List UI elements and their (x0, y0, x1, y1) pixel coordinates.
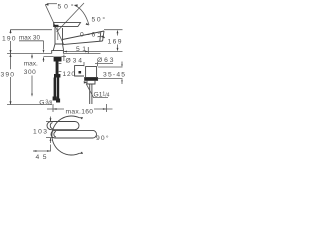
spout top view pill (51, 130, 97, 138)
169 vertical dimension line (117, 33, 119, 48)
svg-text:120: 120 (63, 71, 76, 78)
base flange (52, 51, 64, 54)
svg-text:max 30: max 30 (19, 35, 40, 42)
arrow 190 bottom (10, 50, 12, 54)
hose junction blob (54, 74, 60, 78)
svg-text:Ø63: Ø63 (97, 57, 114, 64)
hose right bar (57, 78, 59, 100)
svg-text:300: 300 (24, 69, 36, 76)
arrow 190 top (10, 29, 12, 33)
169 top extension (104, 29, 123, 31)
max300 dimension line (31, 55, 33, 94)
arrow max160 right (103, 108, 106, 110)
svg-text:G3/8: G3/8 (39, 99, 52, 106)
max160 left tick (52, 104, 54, 112)
35-45 extension lines (97, 67, 123, 79)
51 extension tick (87, 47, 89, 54)
waste upper cylinder (86, 67, 97, 78)
arrow 0-6 leader (102, 35, 105, 38)
arrow max300 down (31, 93, 33, 96)
arrow 390 bottom (10, 101, 12, 105)
mounting nut (54, 57, 62, 62)
left vertical dimension line 190/390 (10, 30, 12, 105)
arrow max30 down (43, 50, 45, 53)
deck line left segment (7, 53, 52, 55)
103 top tick (46, 121, 55, 123)
arrow 50deg leader (45, 3, 49, 5)
spout bottom edge (63, 41, 103, 45)
arrow 103 bottom (50, 138, 52, 141)
base cone (53, 44, 63, 51)
45 dimension line (33, 150, 50, 152)
arrow 169 top (117, 30, 119, 34)
waste flange band fill (85, 78, 98, 80)
hose left bar (54, 78, 56, 98)
Ø63 extension ticks (84, 62, 98, 66)
svg-text:max.: max. (24, 61, 38, 68)
arrow 51 right (85, 51, 88, 53)
svg-text:max.160: max.160 (66, 108, 94, 115)
waste branch inner mark (79, 71, 82, 74)
Ø63 leader underline (95, 63, 113, 65)
arrow max160 left (53, 108, 56, 110)
103 lower segment and 45 extension (50, 138, 52, 152)
waste lower cylinder (87, 80, 95, 84)
swivel arc 90deg (52, 116, 80, 155)
svg-text:50°: 50° (58, 3, 74, 11)
arrow 45 left (33, 150, 36, 152)
svg-text:Ø34: Ø34 (66, 57, 83, 64)
lever top view pill (47, 122, 79, 130)
max30 lower arrow tail (43, 58, 45, 63)
lever underside shadow (54, 25, 59, 27)
hose left connector (53, 97, 57, 101)
hose right connector (56, 99, 60, 103)
svg-text:35-45: 35-45 (103, 72, 125, 79)
max160 right tick (106, 104, 108, 112)
waste flange band outline (85, 78, 98, 81)
103 bottom tick (46, 137, 55, 139)
lever swing arc (75, 5, 90, 25)
shank tick marks (120 dim refs) (59, 64, 62, 72)
svg-text:90°: 90° (96, 134, 109, 142)
arrow 103 top (50, 118, 52, 121)
bottom extension line (hose end) (7, 104, 52, 106)
51 dimension line (64, 51, 123, 53)
arrow 169 bottom (117, 48, 119, 52)
deck line right segment (64, 53, 101, 55)
below-deck hose pair outline (54, 78, 57, 99)
top extension line (body top) (11, 29, 53, 31)
svg-text:169: 169 (108, 39, 122, 46)
svg-text:103: 103 (33, 128, 47, 135)
svg-text:G11/4: G11/4 (94, 91, 110, 98)
waste rod (90, 84, 92, 104)
waste branch box (75, 66, 84, 76)
max30 leader underline (19, 41, 44, 50)
body column (55, 27, 63, 44)
arrow swivel arc bottom (79, 152, 83, 154)
50deg leader line (47, 3, 57, 5)
svg-text:50°: 50° (92, 16, 106, 24)
svg-text:390: 390 (1, 71, 15, 78)
deck slab bottom line (44, 56, 67, 58)
shank black bar (56, 62, 59, 75)
lever raised line L2 (57, 3, 85, 32)
spout end face (103, 31, 104, 41)
arrow max300 up (31, 54, 33, 57)
35-45 outside arrow tails (121, 62, 123, 85)
Ø34 extension tick (63, 55, 65, 62)
arrow swing arc top (74, 4, 78, 6)
arrow 35-45 lower (121, 79, 123, 82)
lever closed bar (54, 23, 81, 27)
column inner line (57, 27, 59, 40)
lever pill inner arc (50, 123, 52, 129)
0-6deg leader (98, 36, 105, 37)
spout top edge (63, 31, 105, 40)
svg-text:190: 190 (2, 35, 16, 42)
arrow 51 left (64, 51, 67, 53)
top view: 103 dim upper segment (50, 117, 52, 122)
max160 dimension line + stubs (47, 108, 113, 110)
arrow 45 right (47, 150, 50, 152)
arrow swing arc bottom (86, 23, 89, 26)
spout pill inner arc (54, 131, 56, 137)
G1 1/4 leader (86, 84, 108, 98)
arrow swivel arc top (79, 117, 83, 119)
aerator inner line (100, 32, 101, 41)
lever raised line L1 (45, 5, 63, 44)
arrow G1 1/4 leader (84, 81, 88, 84)
arrow max30 up (43, 57, 45, 60)
arrow 35-45 upper (121, 64, 123, 67)
arrow 390 top (10, 54, 12, 58)
